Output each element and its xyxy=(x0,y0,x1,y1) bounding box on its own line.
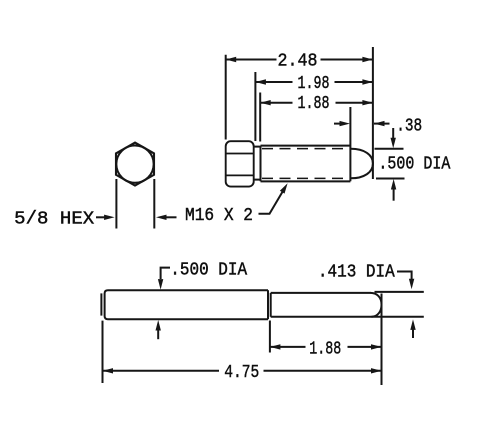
svg-text:M16 X 2: M16 X 2 xyxy=(185,206,253,226)
svg-text:1.88: 1.88 xyxy=(309,340,341,360)
dimension 5/8 HEX left arrow xyxy=(96,216,105,218)
dia .413 extension line lower xyxy=(375,316,424,318)
extension line head left face (2.48) xyxy=(225,55,227,140)
shank outline xyxy=(261,146,351,182)
dim 1.88 line xyxy=(260,102,292,104)
dia .500 bottom leader bracket xyxy=(161,268,170,279)
svg-text:5/8 HEX: 5/8 HEX xyxy=(14,210,94,230)
extension line bolt tip (right) xyxy=(372,47,374,179)
bolt head facet line lower xyxy=(226,174,254,176)
dim 1.88 bottom line xyxy=(270,346,306,348)
svg-text:.500 DIA: .500 DIA xyxy=(378,155,450,175)
step vertical narrow xyxy=(270,293,272,317)
extension line hex left xyxy=(115,179,117,229)
svg-text:1.98: 1.98 xyxy=(298,74,330,94)
extension line stud left end (4.75) xyxy=(102,321,104,383)
dia .500 top up arrow xyxy=(393,189,395,201)
svg-text:.500 DIA: .500 DIA xyxy=(170,260,247,280)
stud narrow section outline xyxy=(271,293,375,317)
label M16 X 2 leader xyxy=(259,189,285,214)
stud left end face xyxy=(100,293,102,315)
dim .38 right arrow xyxy=(374,123,390,125)
stud wide section outline xyxy=(105,290,268,319)
thread dashed line top xyxy=(262,148,348,150)
extension line stud tip (right, shared) xyxy=(381,294,383,386)
dim 1.98 line xyxy=(255,81,292,83)
dim .38 left arrow xyxy=(334,123,340,125)
extension line step (1.88 bottom) xyxy=(269,321,271,353)
extension line shank start (1.88) xyxy=(259,93,261,142)
dim 4.75 line xyxy=(103,370,220,372)
dia .500 bottom up arrow xyxy=(157,330,159,340)
step vertical wide xyxy=(267,290,269,319)
inscribed circle xyxy=(116,145,153,182)
dia .500 top extension line lower xyxy=(376,178,405,180)
dimension 5/8 HEX right arrow xyxy=(166,216,177,218)
svg-text:2.48: 2.48 xyxy=(278,52,318,72)
svg-text:1.88: 1.88 xyxy=(298,94,330,114)
dome tip of bolt xyxy=(351,149,373,179)
dia .500 top down arrow xyxy=(392,128,394,139)
hex head end view (hexagon) xyxy=(116,143,154,186)
dia .500 top extension line upper xyxy=(375,148,404,150)
dim 2.48 line xyxy=(226,59,277,61)
bolt head facet line upper xyxy=(226,153,254,155)
svg-text:4.75: 4.75 xyxy=(224,363,259,383)
svg-text:.38: .38 xyxy=(396,116,422,136)
extension line hex right xyxy=(153,179,155,229)
dia .413 up arrow xyxy=(412,329,414,338)
thread dashed line bottom xyxy=(262,177,348,179)
stud dome tip xyxy=(371,293,382,317)
bolt head side view xyxy=(226,141,254,186)
thread end vertical / .38 extension line xyxy=(349,107,351,181)
extension line head right face (1.98) xyxy=(254,72,256,141)
washer face between head and shank xyxy=(254,146,261,148)
svg-text:.413 DIA: .413 DIA xyxy=(318,262,395,282)
dia .413 leader bracket xyxy=(397,272,412,280)
dia .413 extension line upper xyxy=(375,291,424,293)
